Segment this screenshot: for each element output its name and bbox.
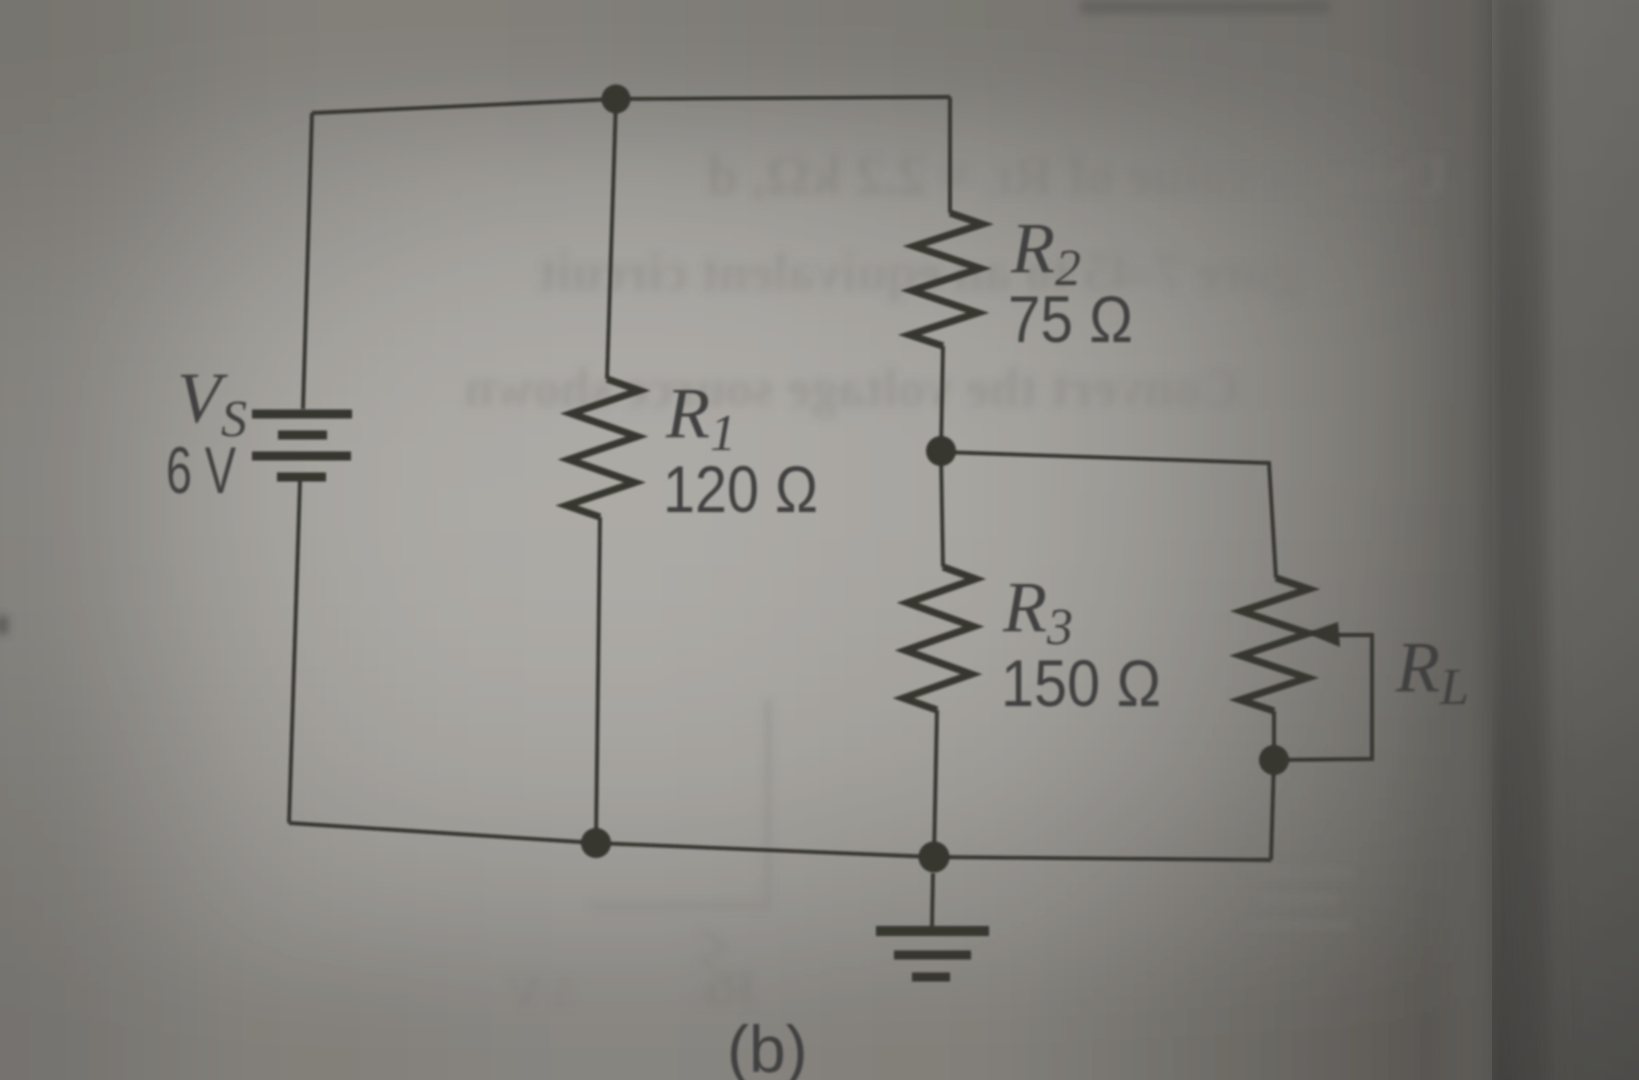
wire R3 to bottom rail (934, 710, 937, 857)
battery VS plate long (252, 452, 351, 461)
battery VS plate short bottom (277, 473, 326, 482)
wire bottom rail (289, 823, 1271, 860)
ground stub (932, 873, 933, 926)
wire R2 to node B (941, 346, 943, 451)
resistor RL (1240, 578, 1309, 711)
wire node B to RL branch (941, 452, 1276, 578)
wire left rail upper (303, 113, 312, 409)
node dot bottom left (581, 828, 611, 858)
wire left rail lower (289, 481, 300, 823)
wire top rail (312, 97, 950, 113)
wire node B to R3 (941, 451, 943, 567)
battery VS plate short (278, 431, 327, 440)
wire top right corner to R2 (948, 97, 952, 213)
ground bar 3 (912, 973, 950, 982)
node B dot (926, 436, 956, 466)
ground bar 1 (876, 926, 989, 936)
wire RL to node C (1272, 711, 1276, 760)
wire R1 to bottom rail (596, 517, 600, 843)
resistor R2 (910, 213, 983, 346)
node dot bottom ground (919, 842, 950, 873)
wire node A to R1 (607, 99, 616, 379)
resistor R1 (567, 379, 640, 517)
page edge dark band (1426, 0, 1639, 1080)
wire node C to bottom rail (1271, 760, 1274, 860)
left margin mark (0, 616, 8, 634)
node C dot (1259, 745, 1289, 775)
wiper arrowhead of RL (1306, 622, 1340, 647)
wiper bracket wire of RL (1274, 635, 1372, 760)
resistor R3 (904, 567, 976, 710)
bleed-through top smudge (1080, 0, 1330, 14)
node dot top (602, 85, 631, 114)
battery VS plate long top (252, 410, 352, 419)
ground bar 2 (894, 951, 971, 960)
